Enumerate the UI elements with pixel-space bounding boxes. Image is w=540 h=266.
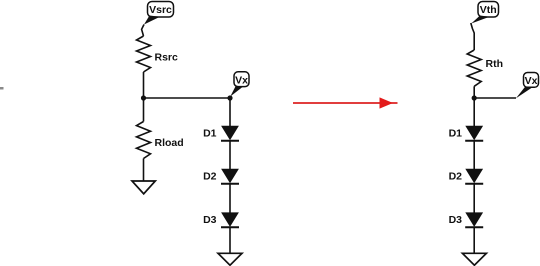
diode D2 left bbox=[203, 169, 239, 183]
node Vx left bbox=[227, 95, 232, 100]
wire Rload to ground bbox=[143, 159, 145, 182]
svg-text:D3: D3 bbox=[449, 214, 463, 226]
node junction right bbox=[472, 95, 477, 100]
wire Vx node to D1 bbox=[229, 98, 231, 127]
wire D2 to D3 bbox=[229, 184, 231, 214]
wire Rsrc to Rload bbox=[143, 72, 145, 122]
diode D3 left bbox=[203, 213, 239, 227]
wire Vsrc to Rsrc bbox=[142, 25, 144, 37]
node junction left bbox=[141, 95, 146, 100]
label Vth bbox=[471, 2, 498, 24]
wire D3 to ground right bbox=[473, 227, 475, 253]
diode D3 right bbox=[449, 213, 484, 227]
svg-text:Rth: Rth bbox=[486, 58, 504, 70]
svg-text:Rload: Rload bbox=[155, 137, 184, 149]
red arrow bbox=[293, 97, 398, 108]
resistor Rsrc bbox=[137, 36, 179, 72]
diode D1 left bbox=[203, 126, 239, 140]
svg-text:Rsrc: Rsrc bbox=[155, 51, 179, 63]
wire D2 to D3 right bbox=[473, 184, 475, 214]
stray mark left edge bbox=[0, 87, 4, 90]
svg-text:D1: D1 bbox=[203, 127, 217, 139]
svg-text:D2: D2 bbox=[449, 170, 463, 182]
wire node to Vx right bbox=[474, 97, 516, 99]
wire D3 to ground bbox=[229, 227, 231, 253]
label Vsrc bbox=[144, 2, 174, 25]
resistor Rload bbox=[137, 122, 184, 159]
label Vx right bbox=[516, 73, 539, 99]
ground right bbox=[462, 253, 486, 265]
svg-text:Vth: Vth bbox=[480, 4, 497, 16]
svg-text:D3: D3 bbox=[203, 214, 217, 226]
wire Vth to Rth bbox=[471, 23, 474, 50]
wire node to Vx node bbox=[144, 97, 231, 99]
wire Rth to D1 bbox=[473, 86, 475, 127]
ground left diode chain bbox=[218, 253, 242, 265]
resistor Rth bbox=[467, 50, 503, 86]
diode D1 right bbox=[449, 126, 484, 140]
svg-text:D2: D2 bbox=[203, 170, 217, 182]
label Vx left bbox=[230, 72, 249, 97]
ground left bbox=[132, 181, 155, 194]
svg-text:Vsrc: Vsrc bbox=[149, 4, 172, 16]
wire D1 to D2 right bbox=[473, 141, 475, 170]
wire D1 to D2 bbox=[229, 141, 231, 170]
diode D2 right bbox=[449, 169, 484, 183]
svg-text:D1: D1 bbox=[449, 127, 463, 139]
svg-text:Vx: Vx bbox=[235, 74, 248, 86]
svg-text:Vx: Vx bbox=[525, 75, 538, 87]
